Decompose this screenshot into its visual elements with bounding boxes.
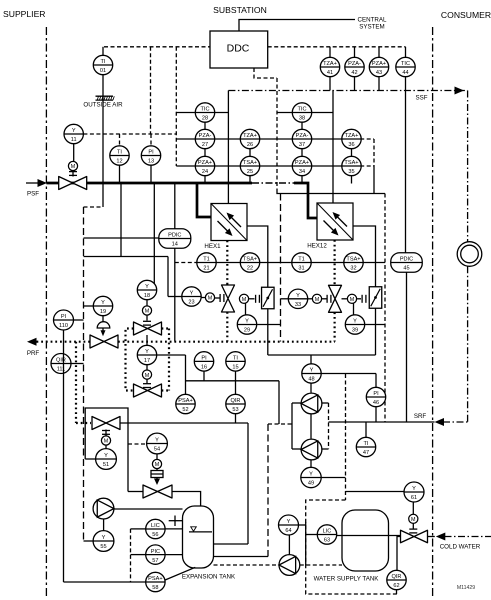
- svg-text:Y: Y: [287, 519, 291, 525]
- instrument Y 51: [96, 449, 117, 470]
- row line y262: [197, 262, 385, 264]
- dotted drain HEX12 upper: [334, 240, 336, 285]
- signal bus right of DDC (dashed): [268, 46, 406, 48]
- instrument TSA+ 32: [344, 253, 363, 272]
- svg-text:44: 44: [402, 70, 408, 76]
- instrument LIC 63: [317, 525, 336, 544]
- svg-text:54: 54: [154, 447, 160, 453]
- svg-text:PRF: PRF: [27, 350, 40, 357]
- dotted drain HEX1 upper: [226, 241, 228, 286]
- svg-text:01: 01: [100, 68, 106, 74]
- wire QIR53 stem: [235, 414, 237, 423]
- control valve Y19 body: [90, 335, 118, 348]
- wire Y39 signal: [365, 324, 385, 326]
- signal drop from DDC bottom (dashed): [254, 68, 277, 189]
- svg-text:QIR: QIR: [231, 398, 241, 404]
- zone label CONSUMER: [441, 10, 491, 20]
- svg-text:T1: T1: [298, 257, 305, 263]
- svg-text:HEX1: HEX1: [204, 243, 221, 250]
- svg-text:35: 35: [348, 169, 354, 175]
- label PRF: [27, 350, 40, 357]
- wire M1 to Y29: [245, 304, 247, 315]
- primary supply to HEX12 (thick): [294, 183, 317, 218]
- dotted drop x76: [75, 342, 77, 423]
- svg-text:QIR: QIR: [56, 358, 66, 364]
- instrument T1 31: [292, 253, 311, 272]
- wire HEX12 right port: [353, 226, 376, 287]
- svg-text:62: 62: [393, 583, 399, 589]
- pump water transfer: [279, 555, 300, 576]
- primary return dotted left: [37, 341, 91, 343]
- valve pressure holding: [92, 417, 120, 430]
- supplier boundary line: [45, 27, 47, 597]
- wire TZA36 drop (dashed): [373, 139, 375, 194]
- svg-text:M: M: [208, 296, 213, 302]
- label SSF: [415, 95, 427, 102]
- wire Y33 left: [281, 298, 289, 300]
- wire PI110 drop: [63, 330, 65, 582]
- svg-text:32: 32: [350, 266, 356, 272]
- svg-text:38: 38: [299, 116, 305, 122]
- instrument T1 21: [197, 253, 216, 272]
- svg-text:TI: TI: [364, 441, 369, 447]
- wire valve61 right: [428, 536, 435, 538]
- signal vertical x280 (long dash): [280, 194, 282, 342]
- svg-text:43: 43: [376, 70, 382, 76]
- svg-text:M11429: M11429: [457, 585, 475, 591]
- dashed stub to pumps: [268, 423, 292, 425]
- svg-text:PI: PI: [201, 356, 207, 362]
- instrument Y 64: [279, 515, 299, 535]
- instrument Y 18: [137, 280, 156, 299]
- svg-text:TZA+: TZA+: [345, 133, 359, 139]
- wire x185 drop: [185, 355, 187, 394]
- primary supply main line (thick): [46, 182, 252, 185]
- svg-text:Y: Y: [155, 438, 159, 444]
- arrow onto valve54: [154, 478, 160, 486]
- svg-text:Y: Y: [145, 349, 149, 355]
- svg-text:Y: Y: [145, 284, 149, 290]
- wire valve61 to QIR62: [397, 537, 401, 571]
- instrument TI 12: [110, 146, 129, 165]
- svg-text:27: 27: [202, 142, 208, 148]
- row line y112: [176, 112, 333, 114]
- svg-text:PZA+: PZA+: [295, 160, 309, 166]
- signal to Y54 (dashed): [128, 443, 147, 445]
- svg-text:23: 23: [188, 300, 194, 306]
- wires top row to SSF line: [330, 77, 406, 91]
- dotted drain HEX1 lower: [226, 312, 228, 342]
- SSF line (dash-dot): [228, 90, 467, 92]
- svg-text:Y: Y: [190, 291, 194, 297]
- signal Y11 (dashed): [83, 133, 176, 135]
- instrument QIR 111: [51, 354, 71, 374]
- wire col x351: [351, 149, 353, 184]
- dashed transfer line: [214, 564, 343, 566]
- left long-dash vertical x84: [83, 207, 85, 541]
- svg-text:EXPANSION TANK: EXPANSION TANK: [182, 574, 236, 581]
- svg-text:57: 57: [152, 558, 158, 564]
- wire expansion line y556: [214, 556, 269, 558]
- wire PDIC45 to SRF: [406, 272, 408, 422]
- COLD WATER arrow: [436, 533, 446, 541]
- instrument Y 17: [137, 345, 156, 364]
- svg-text:56: 56: [152, 532, 158, 538]
- strainer valve HEX12: [369, 287, 382, 309]
- svg-text:34: 34: [299, 169, 305, 175]
- dotted box around Y17: [126, 329, 170, 391]
- signal drop LIC-PSA (dashed): [130, 529, 132, 582]
- wire PI13 stems: [150, 134, 152, 183]
- wire PI110 right: [74, 319, 84, 321]
- wire TI12 stems: [119, 134, 121, 183]
- wire Y11 to M: [73, 144, 75, 162]
- svg-text:64: 64: [285, 528, 291, 534]
- water supply tank: [342, 510, 389, 571]
- svg-text:14: 14: [172, 242, 178, 248]
- svg-text:SRF: SRF: [414, 413, 427, 420]
- wire pump to tank: [114, 508, 183, 510]
- wire jog to x84 (dashed): [84, 206, 104, 208]
- label PSF: [27, 191, 39, 198]
- svg-text:15: 15: [232, 365, 238, 371]
- cold water line (dash-dot): [445, 536, 491, 538]
- wire Y49 right: [321, 477, 345, 479]
- valve bypass lower: [134, 384, 162, 397]
- svg-text:48: 48: [308, 377, 314, 383]
- svg-text:PZA+: PZA+: [198, 160, 212, 166]
- row line y262 (dashed part): [175, 262, 197, 264]
- expansion tank level: [189, 527, 212, 532]
- svg-text:PI: PI: [373, 391, 379, 397]
- wire PSA58 left: [64, 581, 146, 583]
- svg-text:DDC: DDC: [227, 43, 250, 55]
- instrument Y 49: [301, 467, 321, 487]
- svg-text:LIC: LIC: [151, 523, 160, 529]
- wire Y55 left: [84, 540, 94, 542]
- SRF from consumer (dash-dot): [443, 421, 468, 423]
- wire TI47 stem: [365, 422, 367, 437]
- label OUTSIDE AIR: [83, 102, 123, 109]
- valve HEX12 drain (vertical): [329, 285, 342, 312]
- instrument TZA+ 41: [320, 57, 339, 76]
- instrument TSA+ 35: [342, 156, 361, 175]
- svg-text:16: 16: [201, 365, 207, 371]
- pump expansion: [93, 498, 114, 519]
- svg-text:TI: TI: [117, 150, 122, 156]
- instrument PI 13: [141, 146, 160, 165]
- wire Y17 stems: [146, 335, 148, 370]
- primary return dotted main: [118, 341, 335, 343]
- svg-text:M: M: [242, 297, 247, 303]
- instrument PZA+ 34: [292, 156, 311, 175]
- svg-text:PZA+: PZA+: [372, 61, 386, 67]
- instrument Y 11: [64, 124, 83, 143]
- wire TIC44 to PDIC45: [405, 91, 407, 253]
- wire Y64 to pump: [288, 535, 290, 555]
- wire DDC to central system: [239, 20, 355, 32]
- svg-text:49: 49: [308, 481, 314, 487]
- wire expansion line y544: [214, 423, 249, 544]
- svg-text:Y: Y: [101, 300, 105, 306]
- instrument PZA- 27: [195, 129, 214, 148]
- wire main to PDIC14: [174, 183, 176, 229]
- header strainers: [268, 354, 376, 356]
- instrument Y 39: [345, 315, 364, 334]
- svg-text:PZA-: PZA-: [199, 133, 212, 139]
- signal bus left of DDC (dashed): [104, 46, 210, 48]
- instrument PZA- 37: [292, 129, 311, 148]
- svg-text:SYSTEM: SYSTEM: [359, 24, 384, 31]
- vertical x268 (long dash): [267, 424, 269, 557]
- svg-text:29: 29: [244, 328, 250, 334]
- svg-text:SUPPLIER: SUPPLIER: [3, 9, 46, 19]
- wire strainer1 down: [267, 309, 269, 355]
- wire Y51 left loop: [85, 408, 128, 492]
- svg-text:PZA-: PZA-: [348, 61, 361, 67]
- control valve Y19 dome: [97, 316, 110, 337]
- svg-text:TSA+: TSA+: [346, 257, 360, 263]
- svg-text:M: M: [71, 164, 76, 170]
- label CENTRAL SYSTEM: [358, 17, 387, 31]
- wire M2 to Y39: [353, 304, 355, 315]
- motor M strainer2: [342, 294, 366, 303]
- header y380: [186, 380, 280, 382]
- wire TI01 down to wall: [102, 75, 104, 183]
- wire y256: [84, 256, 169, 258]
- valve cold water: [401, 530, 428, 543]
- motor M valve17: [142, 370, 151, 388]
- consumer riser lower (dash-dot): [467, 266, 469, 422]
- primary supply dash-dot gap: [252, 182, 294, 184]
- svg-text:Y: Y: [353, 319, 357, 325]
- svg-text:Y: Y: [310, 368, 314, 374]
- instrument TSA+ 25: [240, 156, 259, 175]
- signal vertical x150 (dashed): [150, 47, 152, 134]
- wires PIC57: [131, 554, 183, 556]
- svg-text:PI: PI: [148, 150, 154, 156]
- wire Y19 left: [84, 305, 94, 307]
- wire pump2 to Y49: [310, 459, 312, 467]
- signal elbow to secondary return header: [277, 189, 385, 194]
- wire TI15 stem: [235, 371, 237, 394]
- svg-text:M: M: [411, 517, 416, 523]
- wire col x250: [249, 149, 251, 183]
- wire x84 to PDIC14: [84, 237, 159, 239]
- signal vertical x345 (dashed): [345, 374, 347, 500]
- instrument Y 33: [288, 289, 307, 308]
- valve bypass upper: [134, 322, 162, 335]
- svg-text:39: 39: [352, 328, 358, 334]
- strainer valve HEX1: [262, 287, 275, 309]
- svg-text:TI: TI: [233, 356, 238, 362]
- PRF arrow: [27, 338, 37, 346]
- instrument PZA- 42: [345, 57, 364, 76]
- zone label SUBSTATION: [213, 5, 267, 15]
- instrument PZA+ 43: [369, 57, 388, 76]
- svg-text:PIC: PIC: [151, 549, 160, 555]
- svg-text:26: 26: [247, 142, 253, 148]
- wire valve51 right: [120, 422, 248, 424]
- wire pump to Y55: [103, 519, 105, 530]
- svg-text:PSF: PSF: [27, 191, 39, 198]
- dotted to valve51: [76, 422, 91, 424]
- instrument Y 23: [182, 287, 201, 306]
- svg-text:Y: Y: [296, 293, 300, 299]
- instrument TIC 44: [396, 57, 415, 76]
- svg-text:19: 19: [100, 309, 106, 315]
- svg-text:Y: Y: [412, 486, 416, 492]
- row line y139: [176, 138, 374, 140]
- wire x279 drop: [278, 381, 280, 424]
- svg-text:41: 41: [327, 70, 333, 76]
- wire LIC63 level line: [337, 535, 401, 537]
- svg-text:11: 11: [71, 137, 77, 143]
- zone label SUPPLIER: [3, 9, 46, 19]
- motor M valve51: [101, 430, 110, 446]
- svg-text:PDIC: PDIC: [168, 233, 181, 239]
- svg-text:47: 47: [363, 450, 369, 456]
- wire main drop x154: [153, 183, 155, 290]
- wire LIC63 left: [306, 534, 318, 536]
- svg-text:25: 25: [247, 169, 253, 175]
- instrument TZA+ 26: [240, 129, 259, 148]
- svg-text:31: 31: [298, 266, 304, 272]
- svg-text:TIC: TIC: [401, 61, 410, 67]
- consumer load double circle: [457, 242, 482, 267]
- svg-text:M: M: [315, 297, 320, 303]
- wire strainer2 down: [375, 308, 377, 355]
- label COLD WATER: [440, 544, 481, 551]
- wire Y48 to pump: [310, 383, 312, 392]
- svg-text:TI: TI: [101, 59, 106, 65]
- wire col x205: [204, 122, 206, 183]
- pump manifold: [292, 403, 329, 449]
- svg-text:PI: PI: [61, 314, 67, 320]
- wire Y29 signal: [257, 324, 281, 326]
- motor M valve54: [152, 454, 161, 469]
- svg-text:33: 33: [295, 302, 301, 308]
- svg-text:13: 13: [148, 159, 154, 165]
- valve HEX1 drain (vertical): [222, 285, 235, 312]
- row line y166: [176, 165, 374, 167]
- instrument PSA+ 52: [176, 394, 195, 413]
- wire Y51 to M: [105, 445, 107, 449]
- riser HEX1 secondary supply: [227, 91, 229, 204]
- instrument PIC 57: [146, 545, 165, 564]
- instrument Y 29: [237, 315, 256, 334]
- svg-text:24: 24: [202, 169, 208, 175]
- svg-text:22: 22: [247, 266, 253, 272]
- svg-text:18: 18: [144, 293, 150, 299]
- svg-text:51: 51: [103, 462, 109, 468]
- instrument TSA+ 22: [240, 253, 259, 272]
- svg-text:61: 61: [411, 495, 417, 501]
- wire main drop x103: [102, 183, 104, 207]
- consumer boundary line: [432, 27, 434, 597]
- wires top row to bus: [330, 47, 406, 58]
- wire PDIC14 to return: [174, 248, 176, 341]
- label M11429: [457, 585, 475, 591]
- wire Y17 right: [157, 354, 186, 356]
- svg-text:42: 42: [351, 70, 357, 76]
- svg-text:QIR: QIR: [392, 574, 402, 580]
- svg-text:T1: T1: [203, 257, 210, 263]
- svg-text:46: 46: [373, 400, 379, 406]
- riser pump top: [310, 355, 312, 364]
- motor M strainer1: [239, 294, 259, 303]
- wire to Y23: [168, 296, 182, 298]
- label WATER SUPPLY TANK: [314, 576, 380, 583]
- instrument PZA+ 24: [195, 156, 214, 175]
- motor M valve18: [142, 300, 151, 325]
- svg-text:OUTSIDE AIR: OUTSIDE AIR: [83, 102, 123, 109]
- signal vertical left matrix (dashed): [175, 47, 177, 166]
- instrument TI 01: [93, 55, 112, 74]
- consumer riser upper (dash-dot): [467, 91, 469, 242]
- wire QIR111 right: [71, 363, 84, 365]
- wire Y64 right: [299, 524, 306, 526]
- svg-text:PDIC: PDIC: [400, 257, 413, 263]
- motor M main valve: [68, 161, 77, 176]
- heat exchanger HEX1: [204, 204, 247, 251]
- svg-text:M: M: [145, 309, 150, 315]
- controller PDIC 14: [159, 229, 191, 249]
- svg-text:63: 63: [324, 538, 330, 544]
- label EXPANSION TANK: [182, 574, 236, 581]
- svg-text:28: 28: [202, 116, 208, 122]
- controller PDIC 45: [391, 253, 423, 273]
- svg-text:SSF: SSF: [415, 95, 427, 102]
- svg-text:PSA+: PSA+: [178, 398, 192, 404]
- svg-text:21: 21: [203, 266, 209, 272]
- svg-text:110: 110: [59, 323, 68, 329]
- svg-text:45: 45: [403, 266, 409, 272]
- svg-text:TIC: TIC: [200, 107, 209, 113]
- svg-text:Y: Y: [245, 319, 249, 325]
- wire col x302: [301, 122, 303, 183]
- wire x168 drop: [167, 257, 169, 297]
- instrument TI 15: [226, 352, 245, 371]
- instrument QIR 53: [226, 394, 245, 413]
- svg-text:TZA+: TZA+: [243, 133, 257, 139]
- instrument TI 47: [356, 437, 375, 456]
- valve make-up: [143, 485, 172, 498]
- instrument TIC 28: [195, 103, 214, 122]
- overflow cross: [169, 516, 183, 527]
- motor M valve61: [409, 502, 418, 533]
- DDC controller box: [210, 31, 268, 68]
- valve main inlet: [59, 177, 87, 190]
- svg-text:52: 52: [182, 407, 188, 413]
- svg-text:COLD WATER: COLD WATER: [440, 544, 481, 551]
- svg-text:M: M: [155, 462, 160, 468]
- svg-text:12: 12: [116, 159, 122, 165]
- wire PI16 stem: [203, 371, 205, 381]
- svg-text:55: 55: [100, 544, 106, 550]
- header x305 solid: [305, 522, 307, 565]
- svg-text:Y: Y: [102, 535, 106, 541]
- svg-text:Y: Y: [309, 472, 313, 478]
- dashed box water tank: [306, 500, 397, 594]
- wire QIR62 stem: [396, 590, 398, 594]
- svg-text:CENTRAL: CENTRAL: [358, 17, 387, 24]
- expansion tank: [183, 506, 214, 568]
- wires LIC56: [131, 528, 183, 530]
- label SRF: [414, 413, 427, 420]
- outside air wall hatch: [96, 96, 115, 100]
- wire Y48 right: [321, 373, 376, 375]
